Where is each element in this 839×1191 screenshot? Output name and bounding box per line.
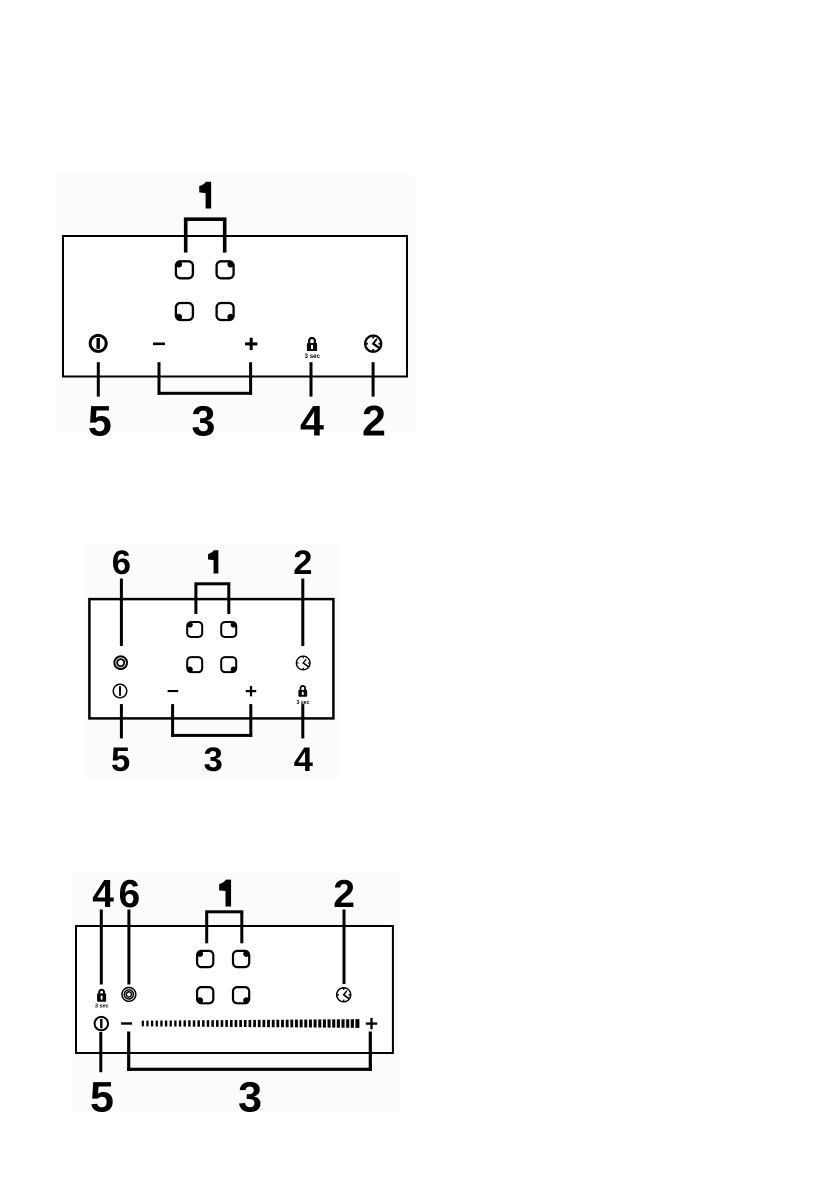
svg-text:5: 5 <box>111 741 130 779</box>
svg-text:3: 3 <box>204 741 223 779</box>
svg-text:5: 5 <box>90 1074 114 1122</box>
svg-text:2: 2 <box>362 398 386 446</box>
svg-text:4: 4 <box>92 873 114 916</box>
svg-text:5: 5 <box>88 398 112 446</box>
svg-text:4: 4 <box>300 398 324 446</box>
svg-text:4: 4 <box>294 741 313 779</box>
svg-text:3 sec: 3 sec <box>95 1003 109 1009</box>
svg-text:3 sec: 3 sec <box>305 353 321 360</box>
svg-text:3: 3 <box>238 1074 262 1122</box>
svg-text:2: 2 <box>293 544 312 582</box>
svg-text:6: 6 <box>112 544 131 582</box>
svg-text:3: 3 <box>191 398 215 446</box>
